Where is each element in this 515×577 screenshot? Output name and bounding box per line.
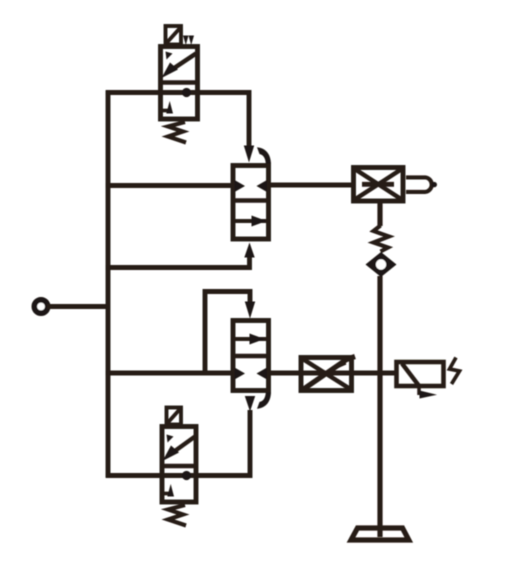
junction dot inside V2 on pipe	[182, 471, 191, 480]
wire: pilot line for valve V4 (tap at main pipe, up and over)	[205, 292, 250, 374]
solenoid valve V1 (3/2, top left)	[159, 47, 200, 120]
wire: bus to valve V3 left port	[106, 183, 233, 188]
wire: left vertical bus	[106, 90, 111, 477]
throttle valve B1 (top right, X box)	[354, 168, 404, 202]
pilot arrow into V4 top	[245, 302, 255, 319]
check valve (diamond with seat circle)	[366, 252, 397, 277]
wire: supply port to left bus	[47, 304, 110, 309]
solenoid actuator of V2	[167, 408, 182, 425]
spring of V2	[168, 505, 186, 526]
adjustable throttle B2 (lower, X box with arrow)	[301, 357, 355, 391]
wire: top line through valve V1 to pilot elbow	[106, 93, 249, 149]
junction dot inside V1 on pipe	[182, 88, 191, 97]
solenoid valve V2 (3/2, bottom left)	[160, 427, 198, 503]
wire: check valve bottom to exhaust	[377, 276, 382, 537]
wire: B1 bottom to spring top	[377, 203, 382, 226]
spring above check valve	[374, 226, 390, 252]
outlet arrow at V4 bottom	[245, 396, 255, 412]
pressure switch B3 (right box with diagonal and electric zigzag)	[397, 358, 460, 399]
exhaust hook at V4 bottom right	[257, 393, 271, 409]
exhaust hook at V3 top right	[257, 147, 271, 163]
wire: valve V3 right port to throttle B1	[271, 183, 352, 188]
pilot valve V3 (upper middle, 2-position)	[231, 166, 271, 240]
solenoid actuator of V1	[166, 26, 195, 45]
exhaust silencer (trapezoid)	[351, 528, 409, 540]
wire: bottom line through valve V2 up to valve V4 bottom port	[106, 410, 250, 476]
pilot arrow into V3 top	[244, 146, 254, 163]
node P supply port circle	[34, 300, 47, 313]
pilot valve V4 (lower middle, 2-position)	[231, 321, 271, 391]
spring of V1	[168, 122, 186, 143]
outlet arrow at V3 bottom	[244, 243, 254, 258]
plugged outlet capsule at B1 right	[406, 177, 437, 192]
wire: main pipe bus to valve V4 left port	[106, 371, 233, 376]
wire: main pipe valve V4 right port to throttle B2 and box B3	[268, 371, 395, 376]
wire: valve V3 bottom outlet to bus	[106, 255, 250, 268]
